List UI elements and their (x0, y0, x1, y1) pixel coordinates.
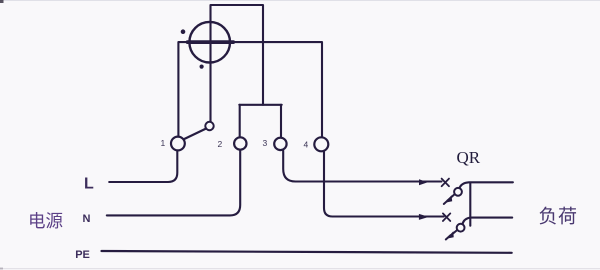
svg-text:3: 3 (263, 138, 268, 148)
svg-text:QR: QR (457, 148, 481, 167)
svg-text:负荷: 负荷 (539, 206, 578, 228)
svg-text:电源: 电源 (28, 211, 63, 231)
svg-text:PE: PE (75, 249, 90, 261)
svg-text:2: 2 (218, 139, 223, 149)
svg-text:4: 4 (304, 139, 309, 149)
svg-text:1: 1 (161, 138, 166, 148)
svg-text:L: L (84, 176, 94, 193)
svg-text:N: N (83, 213, 91, 225)
